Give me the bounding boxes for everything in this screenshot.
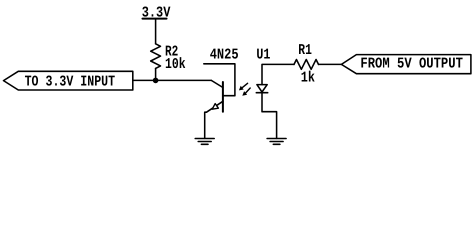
node junction (R2 / flag / collector) <box>153 78 159 84</box>
svg-text:FROM 5V OUTPUT: FROM 5V OUTPUT <box>360 56 463 73</box>
wire: 3.3V rail to R2 top <box>155 19 157 44</box>
svg-text:1k: 1k <box>301 69 315 86</box>
transistor Q1 (4N25 phototransistor) collector lead <box>211 80 223 87</box>
svg-text:4N25: 4N25 <box>210 47 239 64</box>
optocoupler light arrow 1 <box>242 83 247 87</box>
wire: LED cathode to ground <box>262 93 277 139</box>
svg-text:10k: 10k <box>165 56 186 73</box>
svg-text:U1: U1 <box>256 47 270 64</box>
wire: R2 bottom to junction <box>155 68 157 80</box>
diode D (4N25 LED) triangle <box>257 85 267 92</box>
transistor Q1 emitter arrowhead <box>212 104 218 110</box>
net flag TO 3.3V INPUT (pointed box) <box>4 71 133 90</box>
diode D (4N25 LED) cathode bar <box>256 92 267 94</box>
net flag FROM 5V OUTPUT (pointed box) <box>341 55 471 74</box>
svg-text:TO 3.3V INPUT: TO 3.3V INPUT <box>25 74 116 91</box>
wire: net TO_3.3V_INPUT, flag to Q1 collector <box>133 79 212 81</box>
transistor Q1 base bar <box>222 82 224 112</box>
optocoupler light arrow 2 <box>246 88 251 93</box>
wire: R1 to FROM 5V OUTPUT flag <box>319 63 342 65</box>
wire: R1 to LED anode (U1 LED, 4N25) <box>262 64 294 84</box>
ground (under transistor emitter) <box>195 138 214 140</box>
resistor R1 (1k, horizontal zigzag) <box>294 60 319 70</box>
resistor R2 (10k, vertical zigzag) <box>151 44 161 69</box>
transistor Q1 emitter lead + wire to ground <box>205 101 223 138</box>
transistor Q1 base stub (pin 6, unconnected) <box>204 64 235 96</box>
svg-text:R1: R1 <box>298 42 312 59</box>
ground (under LED cathode) <box>267 138 286 140</box>
power symbol 3.3V (rail bar) <box>143 18 167 20</box>
svg-text:3.3V: 3.3V <box>142 5 171 22</box>
